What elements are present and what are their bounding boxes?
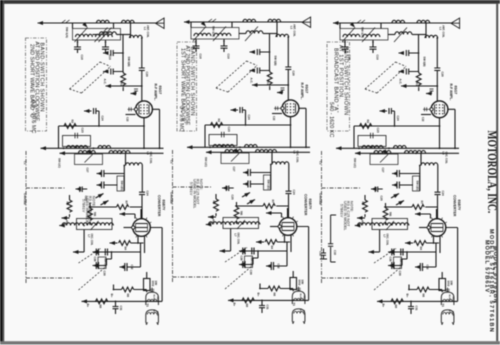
svg-text:3 - 9.5 MC: 3 - 9.5 MC: [178, 106, 184, 132]
svg-text:540 - 1620 KC: 540 - 1620 KC: [328, 102, 334, 137]
svg-text:57B61V: 57B61V: [81, 199, 85, 213]
svg-text:57B61V: 57B61V: [339, 204, 343, 218]
svg-text:C26: C26: [318, 251, 322, 256]
svg-text:57B61V: 57B61V: [189, 182, 193, 196]
svg-text:C10: C10: [333, 250, 337, 255]
svg-text:8.8 - 10.6 MC: 8.8 - 10.6 MC: [30, 100, 36, 133]
